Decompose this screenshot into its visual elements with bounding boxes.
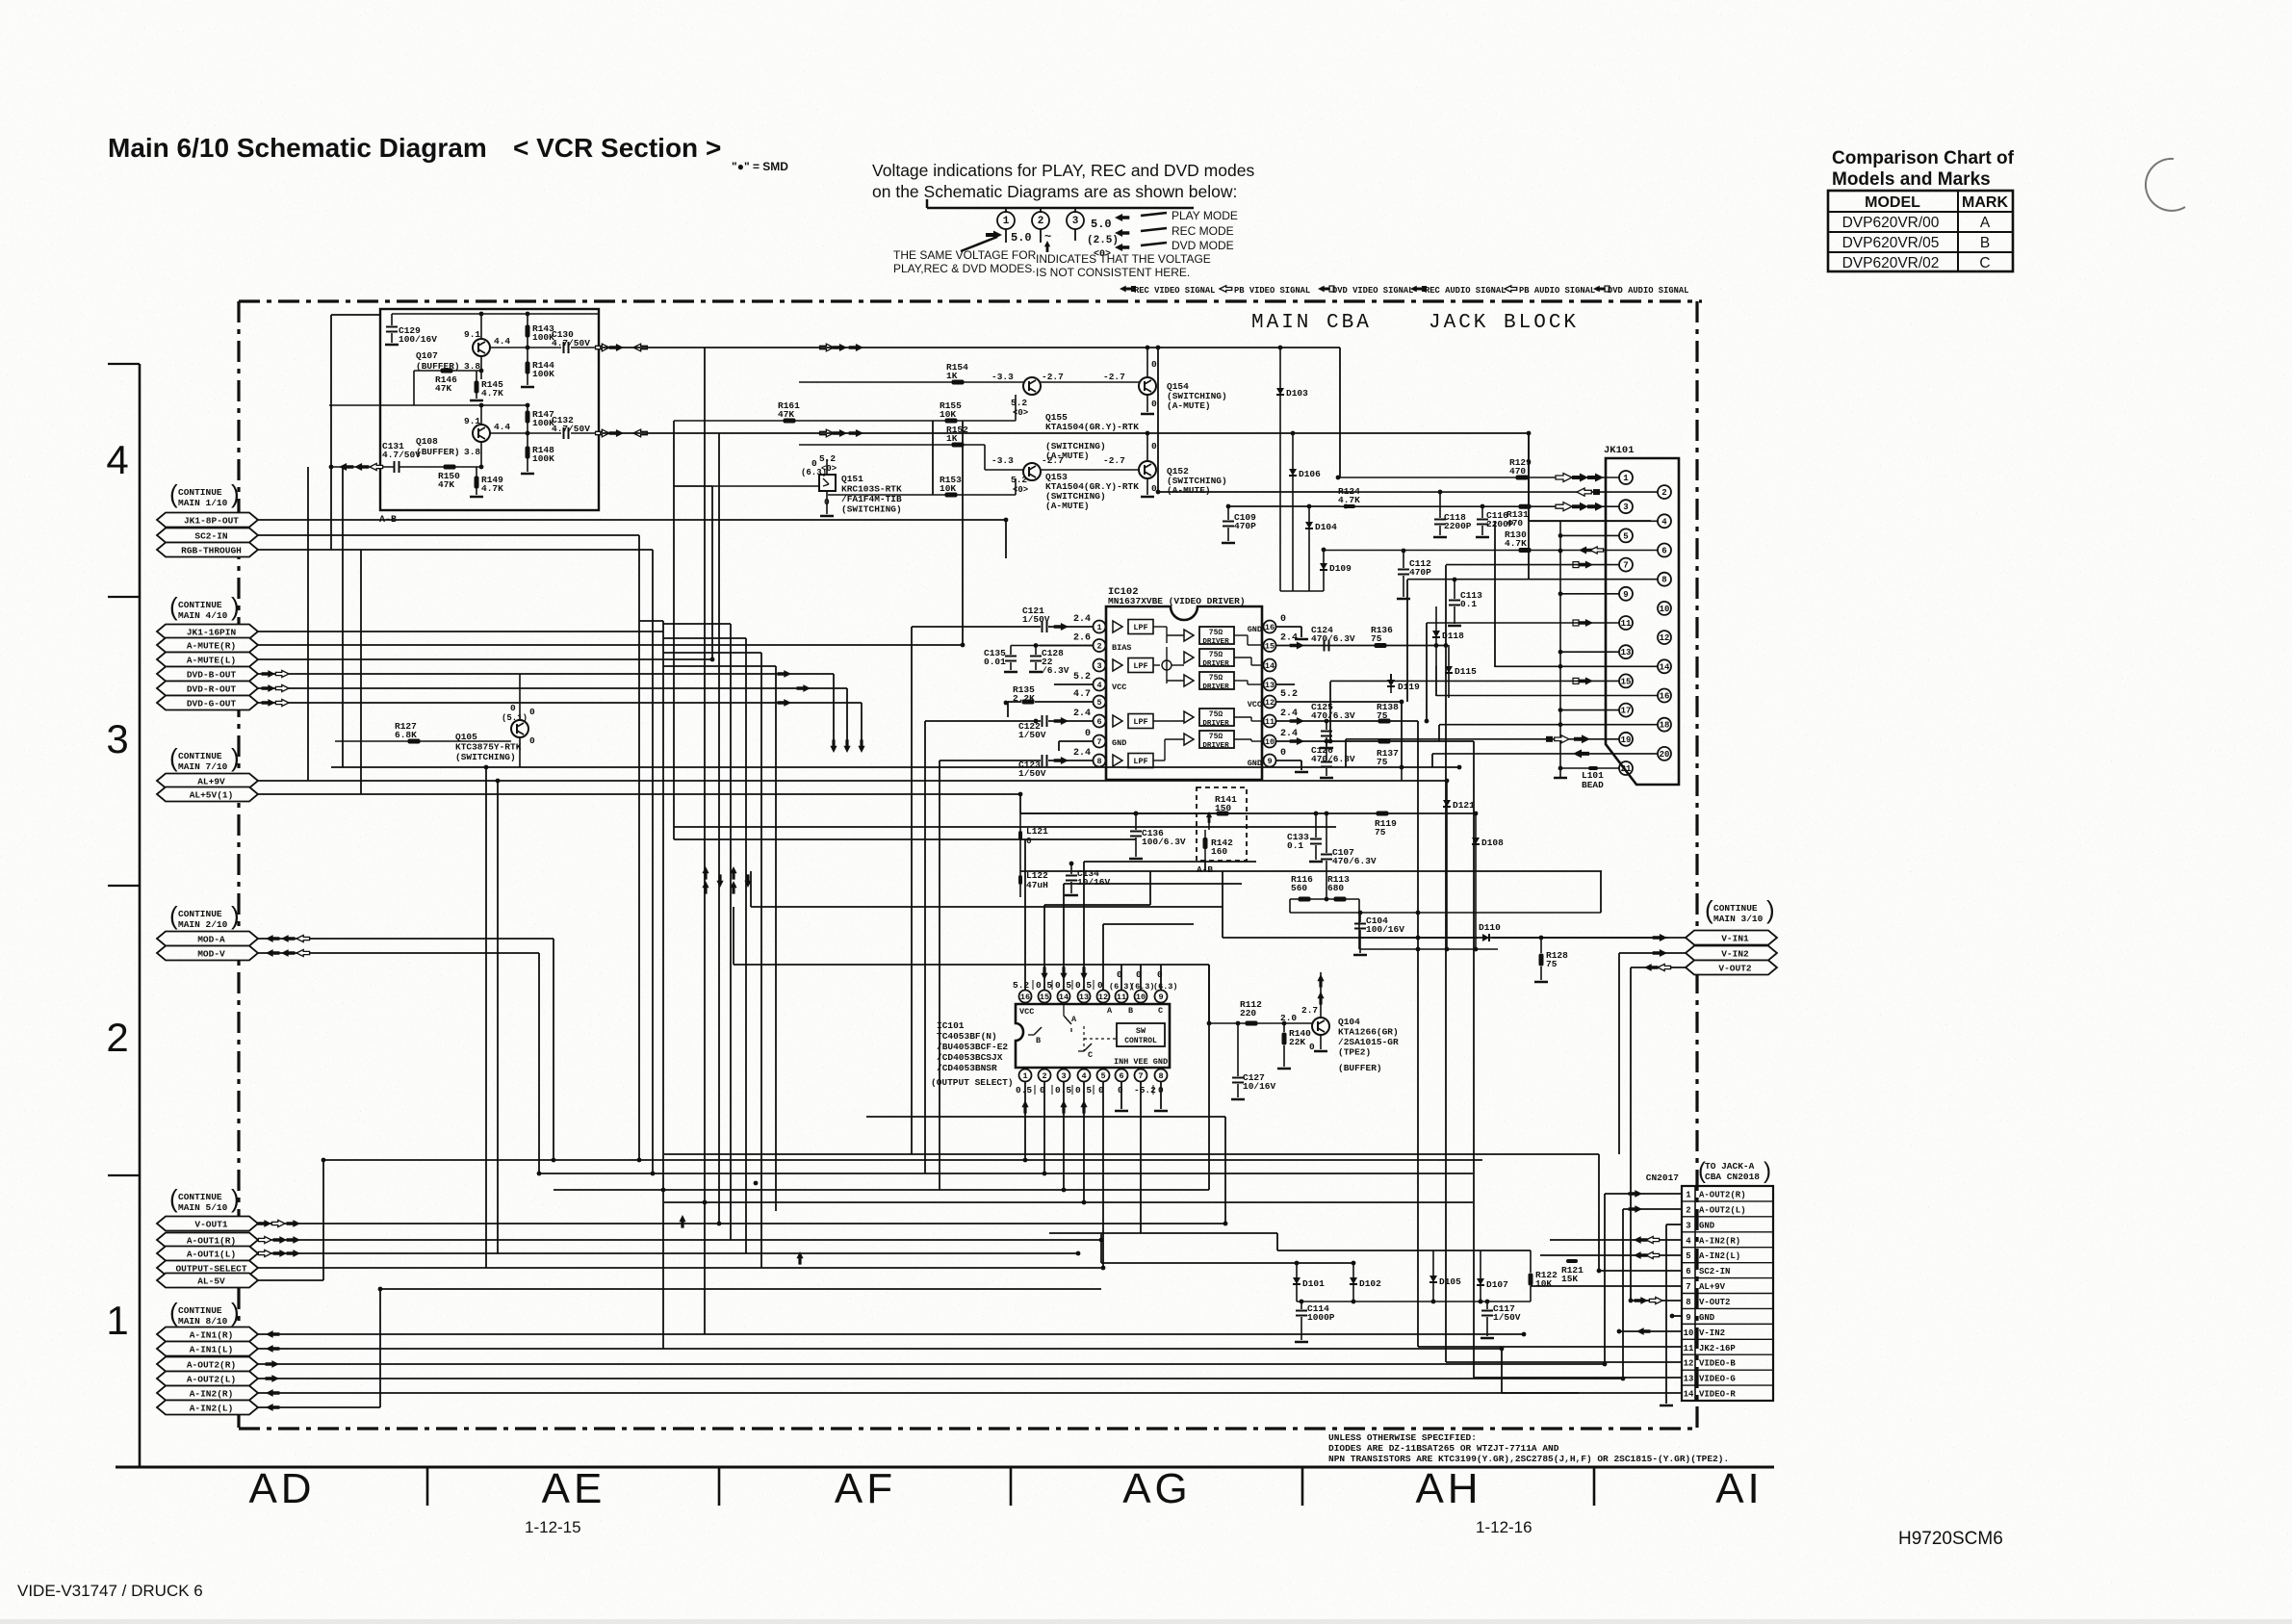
IC101 pin 1	[1019, 1070, 1032, 1082]
JK101 pin 7	[1619, 558, 1633, 572]
wire DVD-B-OUT run	[258, 673, 834, 675]
wire JK101 pin 13 lead	[1560, 651, 1619, 653]
arrow on JK101 pin11 wire	[1579, 619, 1593, 627]
net tag A-IN1(R)	[157, 1328, 258, 1342]
wire buffer1 out vertical	[1157, 348, 1159, 492]
wire A-OUT2L run	[258, 1378, 1623, 1379]
JK101 pin 20	[1658, 747, 1671, 760]
arrows on JK101 pin19 wire	[1574, 735, 1590, 743]
wire JK101 pin 6 lead	[1324, 550, 1658, 552]
wire band y1236	[554, 1189, 1209, 1191]
wire pin14 jog	[1064, 883, 1242, 885]
wire IC101 pin10 up	[1140, 965, 1142, 991]
capacitor C124 470/6.3V	[1324, 640, 1326, 652]
net tag MOD-V	[157, 946, 258, 961]
diode D101	[1296, 1263, 1298, 1302]
arrows CN rows 1-2	[1629, 1190, 1642, 1198]
wire box top feed	[331, 314, 380, 316]
wire DVD-R-OUT drop	[846, 688, 848, 743]
IC102 pin 16	[1264, 621, 1276, 633]
JK101 pin 13	[1619, 645, 1633, 658]
wire JK101 pin 3 lead	[1340, 505, 1619, 507]
schematic dash-dot border right	[1695, 301, 1698, 1429]
IC101 pin separator ticks	[1032, 980, 1034, 990]
up arrows lower mesh	[679, 1215, 685, 1228]
wire pin7 stub	[1059, 740, 1093, 742]
wire JK101 pin 2 lead	[1352, 491, 1658, 493]
JK101 pin 9	[1619, 587, 1633, 601]
diode D110	[1482, 934, 1489, 941]
junction JK101 bus pin 17	[1558, 708, 1563, 712]
resistor R113 680	[1334, 897, 1347, 902]
IC101 pin 12	[1097, 991, 1110, 1003]
wire CN r13 stub	[1474, 1377, 1682, 1379]
wire left riser B	[307, 467, 309, 781]
resistor R146 47K	[441, 369, 453, 374]
JK101 pin 17	[1619, 704, 1633, 717]
wire R161/R155 row	[674, 420, 1016, 422]
resistor R153 10K	[945, 493, 958, 498]
wire IC101 pin11 up	[1120, 965, 1122, 991]
wire IC101 pin8 gnd	[1160, 1081, 1162, 1109]
wire pin9 gnd stub	[1276, 760, 1301, 761]
arrows below IC101 pins	[1021, 1100, 1028, 1114]
connector CN2017 outline	[1682, 1186, 1773, 1401]
IC101 pin 15	[1039, 991, 1051, 1003]
wire IC101 pin2 drop	[1043, 1081, 1045, 1173]
resistor R142 160	[1203, 838, 1208, 849]
IC102 pin 15	[1264, 639, 1276, 652]
wire A-MUTE(R) run	[258, 644, 963, 646]
IC102 pin 9	[1264, 755, 1276, 767]
diode D102	[1352, 1263, 1354, 1302]
wire Q104 feed	[1208, 965, 1210, 1023]
wire JK101 pin 18 lead	[1439, 724, 1658, 726]
wire rail y845 to C133	[1020, 812, 1294, 814]
capacitor C112 470P	[1403, 551, 1404, 568]
wire bus V2	[652, 550, 654, 1173]
wire C121 riser	[911, 627, 913, 1154]
wire V-IN1 run	[1223, 937, 1686, 939]
IC101 pin 5	[1097, 1070, 1110, 1082]
wire to JK101 pin2	[1158, 491, 1352, 493]
net tag A-OUT1(R)	[157, 1233, 258, 1248]
net tag A-MUTE(R)	[157, 638, 258, 653]
wire y1281 segment	[1049, 1232, 1277, 1234]
wire pin5 stub R135	[1008, 701, 1021, 703]
wire IC101 pin3 drop	[1063, 1081, 1065, 1190]
IC101 pin 16	[1019, 991, 1032, 1003]
capacitor C122 1/50V	[1054, 717, 1069, 725]
wire rail y872	[674, 838, 1136, 840]
wire JK101 pin 1 lead	[1340, 477, 1619, 478]
wire left riser C	[342, 467, 344, 767]
wire riser x1256b	[1208, 965, 1210, 1190]
bottom diode row common wire	[1297, 1301, 1531, 1302]
wire IC101 pin16 up	[1024, 839, 1026, 991]
wire CN r12 stub	[1446, 1361, 1682, 1363]
wire y1299 segment	[1277, 1250, 1531, 1251]
wire pin18 drop	[1438, 725, 1440, 741]
resistor R141 150	[1217, 812, 1229, 816]
junction JK101 bus pin 5	[1558, 533, 1563, 538]
resistor R145 4.7K	[475, 381, 479, 394]
wire A-OUT1L run	[258, 1252, 1078, 1254]
wire CN r6 riser	[1598, 1154, 1600, 1271]
IC101 pin 9	[1155, 991, 1168, 1003]
wire CN r11 stub	[1418, 1346, 1682, 1348]
ground IC102 pin16	[1301, 627, 1302, 637]
wire CN r3 gnd riser	[1665, 1224, 1667, 1404]
wire bus V6	[730, 624, 732, 1240]
wire bus V8	[760, 653, 762, 1268]
transistor Q108 (BUFFER)	[473, 425, 490, 442]
IC102 pin 6	[1094, 715, 1106, 728]
ground IC102 pin9	[1301, 760, 1302, 770]
voltage legend bracket	[926, 199, 929, 208]
wire pin11 out	[1276, 720, 1418, 722]
JK101 pin 5	[1619, 528, 1633, 542]
IC102 LPF stage	[1113, 659, 1122, 671]
wire A-OUT2R run	[258, 1363, 1605, 1365]
wire A-IN2L upper	[380, 1288, 1101, 1290]
CN2017 row divider 13	[1682, 1369, 1773, 1371]
wire DVD-R-OUT run	[258, 687, 847, 689]
wire band y1219	[539, 1173, 1473, 1174]
wire pin7 drop jk	[1445, 565, 1447, 646]
wire V-IN2 run	[1619, 952, 1686, 954]
IC101 pin 6	[1116, 1070, 1128, 1082]
IC101 pin 11	[1116, 991, 1128, 1003]
R116/R113 frame	[1289, 899, 1291, 913]
arrow markers MOD tags	[266, 935, 279, 942]
capacitor C136 100/6.3V	[1135, 813, 1137, 830]
IC102 pin 8	[1094, 755, 1106, 767]
wire buffer1 out horizontal	[600, 347, 1340, 348]
wire A-MUTE(R) riser	[962, 421, 964, 645]
junction JK101 bus crossing 18	[1558, 722, 1563, 727]
wire rail y859	[674, 826, 1336, 828]
wire pin6 C122 feed	[1048, 720, 1093, 722]
diode D109	[1323, 550, 1325, 591]
junction dots	[484, 765, 489, 770]
wire rail y797	[331, 766, 1459, 768]
diode D115	[1448, 645, 1450, 698]
IC102 pin 13	[1264, 679, 1276, 691]
IC101 switch glyphs	[1063, 1004, 1065, 1016]
wire JK101 pin 8 lead	[1407, 579, 1658, 580]
wire x1663 riser	[1600, 871, 1602, 907]
resistor R129 470	[1516, 476, 1529, 480]
wire JK101 pin 17 lead	[1560, 709, 1619, 711]
wire C121 feed	[1048, 626, 1093, 628]
capacitor C107 470/6.3V	[1326, 813, 1327, 853]
arrows on C131 input	[339, 463, 353, 471]
IC102 pin 2	[1094, 639, 1106, 652]
legend up arrow	[1046, 243, 1048, 252]
wire pin12 jog	[1103, 923, 1194, 925]
IC102 LPF stage	[1113, 621, 1122, 632]
wire bus V7	[745, 638, 747, 1253]
CN2017 row divider 9	[1682, 1307, 1773, 1309]
wire VIDEO-B riser	[1445, 646, 1447, 1363]
diode D105	[1432, 1250, 1434, 1302]
IC101 pin 10	[1135, 991, 1147, 1003]
wire IC101 pin12 up	[1102, 924, 1104, 991]
capacitor C131 4.7/50V	[394, 461, 396, 473]
wire pin8 C123 feed	[1048, 760, 1093, 761]
transistor Q151 (digital)	[819, 475, 836, 491]
arrows V-OUT2	[1644, 964, 1658, 971]
wire bus V9	[775, 666, 777, 1211]
wire JK101 pin 15 lead	[1330, 680, 1619, 682]
legend circled 2	[1032, 212, 1049, 229]
IC101 pin 13	[1078, 991, 1091, 1003]
wire IC101 pin6 gnd	[1120, 1081, 1122, 1109]
wire pin8 drop	[1406, 580, 1408, 702]
resistor R155 10K	[945, 419, 958, 424]
wire IC101 pin5 drop	[1102, 1081, 1104, 1268]
wire D110 row left	[1359, 937, 1478, 939]
resistor R136 75	[1375, 643, 1387, 648]
arrow on JK101 pin20 wire	[1573, 749, 1589, 758]
wire R141 row left	[1136, 812, 1209, 814]
wire CN r4 stub	[1550, 1239, 1682, 1241]
wire R153 row	[828, 494, 1016, 496]
wire R135 to pin5	[1035, 701, 1093, 703]
capacitor C127 10/16V	[1237, 1023, 1239, 1076]
wire pin20 drop jk	[1431, 754, 1433, 767]
wire D110 row right	[1492, 937, 1667, 939]
wire y1312 segment	[1101, 1262, 1353, 1264]
wire JK101 pin 16 lead	[1436, 695, 1658, 697]
net tag A-IN1(L)	[157, 1342, 258, 1356]
wire C123 riser	[939, 760, 940, 1190]
wire CN r1 stub	[1605, 1193, 1682, 1195]
wire x780 stub	[750, 871, 752, 907]
wire A-IN2R run	[258, 1392, 1579, 1394]
wire AL-5V run	[258, 1279, 323, 1281]
arrow on JK101 pin6 wire	[1579, 546, 1593, 554]
wire pin15 out	[1276, 645, 1446, 647]
net tag V-IN1	[1686, 931, 1777, 945]
resistor R147 100K	[526, 411, 530, 424]
diode D121	[1446, 781, 1448, 949]
wire JK1-8P-OUT run	[258, 519, 1006, 521]
ground CN2017 pin3	[1660, 1405, 1673, 1407]
IC102 75ohm driver stage	[1184, 675, 1194, 686]
net tag A-OUT2(R)	[157, 1357, 258, 1372]
wire Vout1 riser	[1224, 1117, 1226, 1224]
wire MOD-V riser	[538, 953, 540, 1173]
IC102 75ohm driver stage	[1184, 711, 1194, 723]
JK101 pin 12	[1658, 631, 1671, 644]
wire A-IN1R run	[258, 1333, 1524, 1335]
resistor R144 100K	[526, 362, 530, 374]
IC102 75ohm driver stage	[1184, 630, 1194, 641]
junction JK feeds	[1444, 643, 1449, 648]
net tag A-MUTE(L)	[157, 653, 258, 667]
JK101 pin 19	[1619, 733, 1633, 746]
IC102 pin 1	[1094, 621, 1106, 633]
wire CN r3 stub	[1666, 1224, 1682, 1225]
arrows on JK101 pin1 wire	[1572, 474, 1588, 482]
resistor R143 100K	[526, 325, 530, 338]
capacitor C132 4.7/50V	[563, 427, 565, 439]
arrow CN row10	[1636, 1328, 1650, 1335]
Q151 leads	[712, 485, 819, 487]
CN2017 row divider 3	[1682, 1216, 1773, 1218]
connector JK101 outline	[1606, 458, 1679, 785]
CN2017 row divider 12	[1682, 1353, 1773, 1355]
net tag A-IN2(R)	[157, 1386, 258, 1401]
net tag A-OUT1(L)	[157, 1247, 258, 1261]
wire bus V5	[718, 433, 720, 1224]
wire CN r8 stub	[1631, 1300, 1682, 1302]
wire JK101 pin 4 lead	[1529, 520, 1658, 522]
wire y905 run	[1020, 870, 1602, 872]
wire bus V4	[704, 348, 706, 1334]
diode D103	[1279, 348, 1281, 591]
CN2017 row divider 14	[1682, 1384, 1773, 1386]
wire A-MUTE(L) riser	[711, 486, 713, 659]
wire V-IN2 riser	[1618, 953, 1620, 1154]
JK101 pin 4	[1658, 514, 1671, 528]
net tag DVD-G-OUT	[157, 696, 258, 710]
JK101 pin 18	[1658, 718, 1671, 732]
arrows CN row8	[1635, 1297, 1648, 1304]
transistor Q155	[1023, 377, 1041, 395]
wire pin12 stub	[1276, 701, 1402, 703]
wire C123 left lead	[940, 760, 1041, 761]
wire JK101 pin 20 lead	[1432, 753, 1658, 755]
wire pin12 vcc drop	[1401, 702, 1403, 767]
JK101 pin 10	[1658, 602, 1671, 615]
wire JK101 pin 19 lead	[1346, 738, 1619, 740]
wire JK2 riser	[1417, 721, 1419, 1347]
wire q151 left run	[674, 485, 712, 487]
wire IC101 pin4 drop	[1083, 1081, 1085, 1202]
schematic dash-dot border top	[239, 299, 1702, 302]
diode D106	[1292, 433, 1294, 591]
wire IC101 pin14 up	[1063, 884, 1065, 991]
wire A-OUT2R riser	[1604, 1194, 1606, 1364]
wire CN r6 stub	[1599, 1270, 1682, 1272]
wire DVD-B-OUT drop	[833, 674, 835, 743]
CN2017 row divider 4	[1682, 1231, 1773, 1233]
JK101 pin 8	[1658, 573, 1671, 586]
CN2017 row divider 10	[1682, 1323, 1773, 1325]
wire pin11 drop jk	[1426, 623, 1428, 721]
wire OUTPUT-SELECT run	[258, 1267, 1103, 1269]
wire bus h663	[663, 637, 746, 639]
net tag SC2-IN	[157, 528, 258, 543]
JK101 pin 21	[1619, 761, 1633, 775]
Q107 stage wiring	[392, 313, 599, 315]
resistor R131 470	[1519, 504, 1532, 509]
wire bus h645	[639, 620, 663, 622]
CN2017 row divider 8	[1682, 1293, 1773, 1295]
capacitor C130 4.7/50V	[563, 342, 565, 353]
wire pin4 stub	[1054, 683, 1093, 685]
wire x505 riser	[485, 767, 487, 1268]
net tag MOD-A	[157, 932, 258, 946]
arrows on JK101 pin2 wire	[1577, 488, 1591, 496]
wire pin14 drop	[1494, 521, 1496, 667]
JK101 pin 2	[1658, 485, 1671, 499]
capacitor C114 1000P	[1301, 1302, 1302, 1309]
signal type legend	[1120, 286, 1132, 293]
CN2017 row divider 2	[1682, 1200, 1773, 1202]
IC102 pin 12	[1264, 696, 1276, 709]
transistor Q107 (BUFFER)	[473, 339, 490, 356]
arrows on JK101 pin3 wire	[1572, 503, 1588, 511]
wire C122 left	[925, 720, 1041, 722]
wire SC2-IN run	[258, 534, 639, 536]
capacitor C135 0.01	[1010, 646, 1012, 656]
wire AL+5V drop	[1019, 794, 1021, 813]
wire buffer2 out horizontal	[600, 432, 1529, 434]
IC102 75ohm driver stage	[1184, 734, 1194, 745]
junction JK101 bus pin 13	[1558, 650, 1563, 655]
wire riser x1327	[1276, 1233, 1278, 1250]
arrow V-IN1	[1653, 934, 1667, 941]
capacitor C133 0.1	[1315, 813, 1317, 838]
legend stems and values	[1005, 229, 1007, 243]
wire RGB-THROUGH run	[258, 549, 653, 551]
bottom ruler ticks	[426, 1467, 429, 1506]
IC102 75ohm driver stage	[1184, 652, 1194, 663]
capacitor C109 470P	[1227, 506, 1229, 520]
wire pin16 drop	[1435, 666, 1437, 696]
JK101 pin 1	[1619, 471, 1633, 484]
wire pin2 stub	[1040, 645, 1093, 647]
IC102 pin 7	[1094, 735, 1106, 748]
arrow V-IN2	[1653, 949, 1667, 957]
junction JK101 bus crossing 14	[1558, 664, 1563, 669]
wire bus h678	[663, 652, 761, 654]
wire pin3 line	[1228, 505, 1340, 507]
wire JK101 pin 9 lead	[1560, 593, 1619, 595]
net tag V-IN2	[1686, 946, 1777, 961]
wire DVD-G-OUT run	[258, 702, 862, 704]
wire JK101 pin 14 lead	[1495, 665, 1658, 667]
wire Q155 row	[799, 381, 1023, 383]
wire A-MUTE(L) run	[258, 658, 712, 660]
wire IC101 pin9 up	[1160, 965, 1162, 991]
wire pin13 jog	[1084, 861, 1256, 863]
wire band y1249	[664, 1201, 1473, 1203]
wire bus h648	[663, 623, 731, 625]
ground IC101 pin6	[1115, 1110, 1128, 1113]
resistor R148 100K	[526, 447, 530, 459]
junction D110 row	[1416, 936, 1421, 941]
wire bus V3	[662, 621, 664, 1349]
wire A-IN2L riser	[379, 1289, 381, 1407]
wire V-OUT2 run	[1631, 967, 1686, 968]
capacitor C123 1/50V	[1054, 757, 1069, 764]
JK101 bus ground	[1559, 768, 1561, 778]
wire buffer2 out vertical	[1528, 433, 1530, 521]
wire left riser A	[330, 315, 332, 550]
arrows above IC101 pins	[1041, 967, 1047, 980]
capacitor C116 2200P	[1481, 506, 1483, 518]
buffer sub-circuit box	[380, 309, 599, 510]
net tag AL+9V	[157, 774, 258, 788]
net tag A-IN2(L)	[157, 1401, 258, 1415]
IC102 LPF stage	[1113, 755, 1122, 766]
left ruler ticks	[108, 363, 140, 365]
